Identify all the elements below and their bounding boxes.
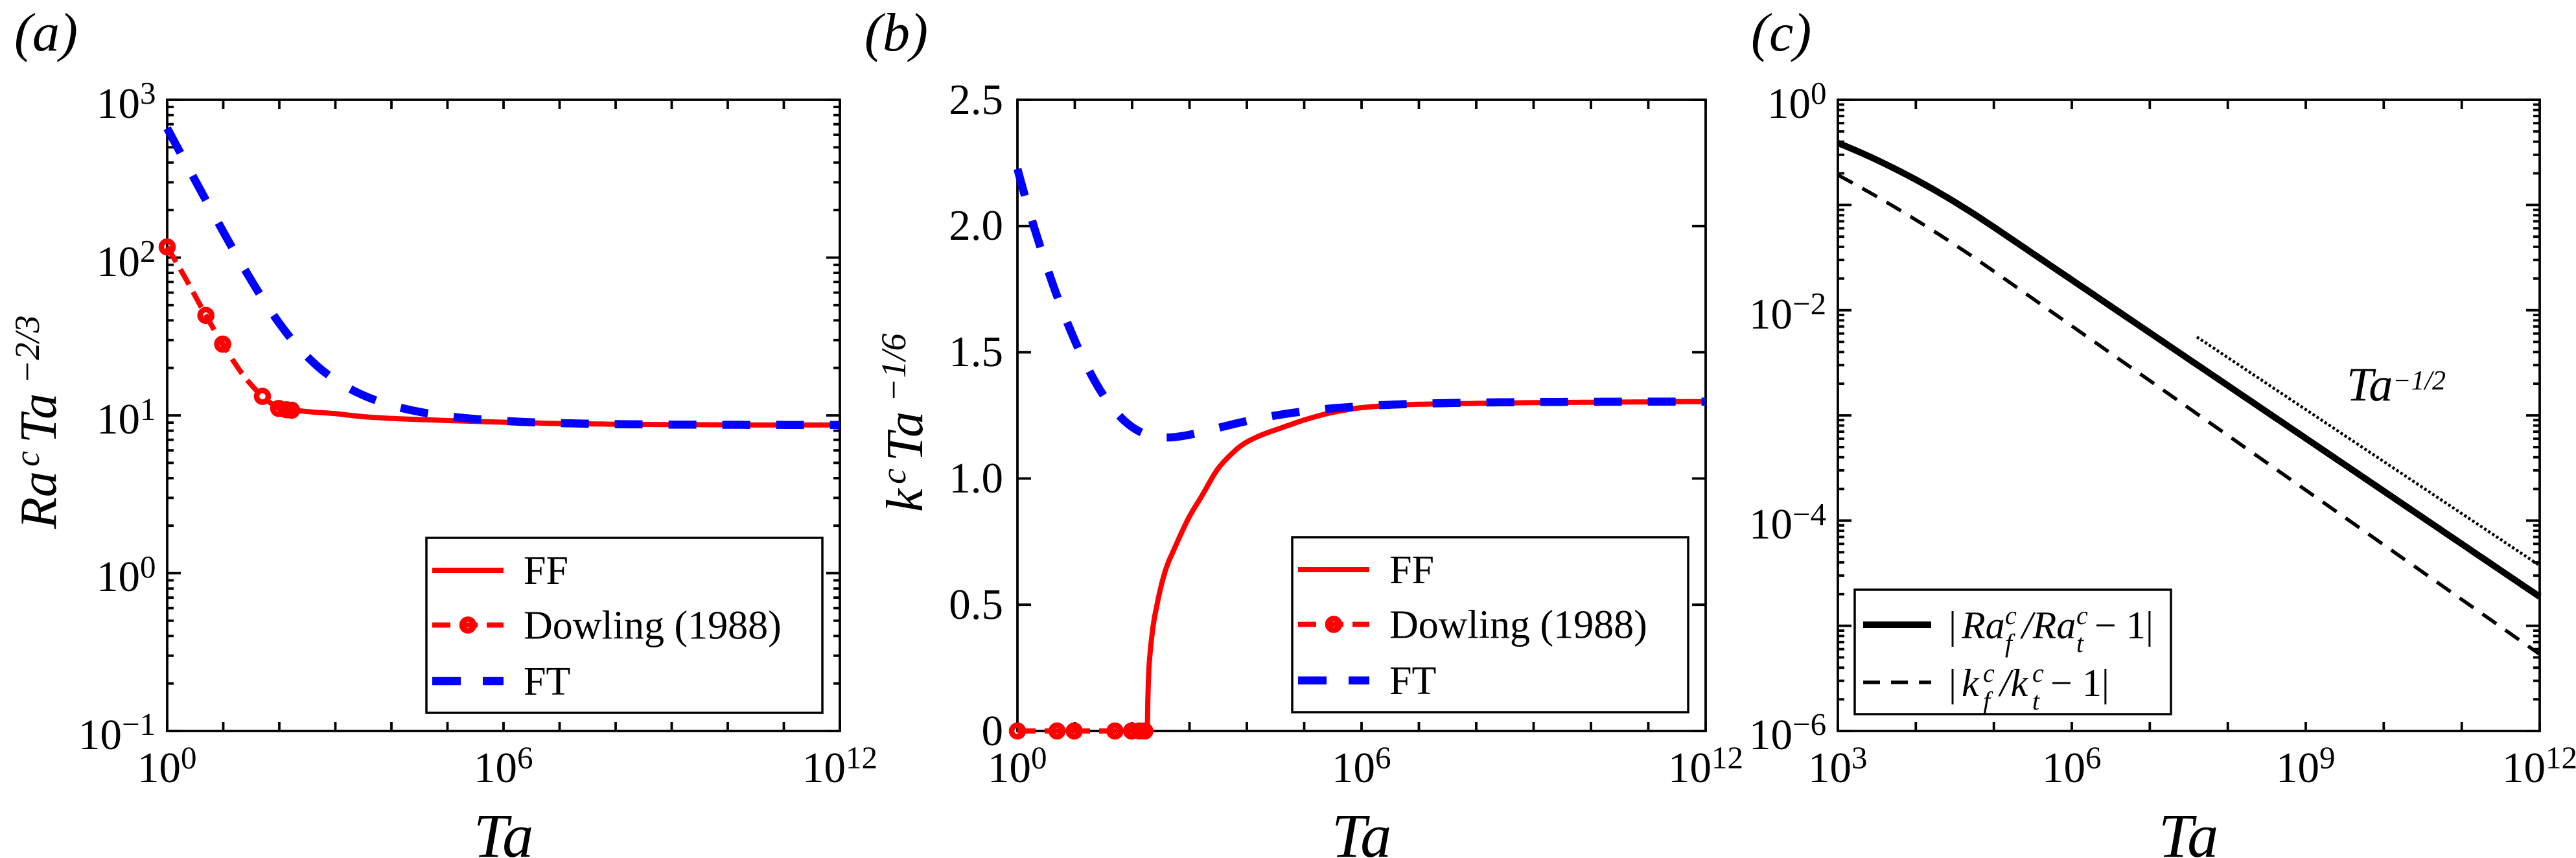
svg-text:10: 10 bbox=[802, 744, 846, 792]
svg-text:10: 10 bbox=[474, 744, 517, 792]
panel a curve Dowling red dashed bbox=[167, 247, 295, 410]
legend box panel a bbox=[426, 538, 822, 713]
svg-text:k: k bbox=[1962, 662, 1980, 704]
svg-text:10: 10 bbox=[97, 80, 140, 128]
svg-text:c: c bbox=[8, 451, 47, 467]
svg-text:2: 2 bbox=[140, 233, 156, 269]
legend box panel b bbox=[1292, 537, 1688, 712]
svg-text:10: 10 bbox=[97, 395, 140, 443]
svg-text:10: 10 bbox=[1749, 711, 1793, 759]
svg-text:0: 0 bbox=[181, 740, 197, 776]
svg-text:10: 10 bbox=[137, 744, 181, 792]
svg-text:12: 12 bbox=[1712, 740, 1743, 776]
panel c legend dashed entry bbox=[1863, 680, 1931, 684]
svg-text:FF: FF bbox=[524, 549, 568, 593]
svg-text:10: 10 bbox=[2502, 744, 2546, 792]
svg-text:10: 10 bbox=[1749, 290, 1793, 338]
svg-text:1: 1 bbox=[140, 391, 156, 427]
svg-text:− 1|: − 1| bbox=[2094, 604, 2153, 647]
svg-text:0: 0 bbox=[140, 549, 156, 585]
panel a curve FF red solid bbox=[296, 410, 839, 424]
svg-text:c: c bbox=[2005, 601, 2017, 630]
svg-text:c: c bbox=[2076, 601, 2088, 630]
svg-text:|: | bbox=[1949, 604, 1956, 647]
svg-text:FT: FT bbox=[1389, 659, 1436, 703]
panel b axes box bbox=[1017, 100, 1706, 731]
svg-text:−1: −1 bbox=[122, 706, 156, 742]
panel a axes box bbox=[167, 100, 840, 731]
svg-text:−1/2: −1/2 bbox=[2393, 366, 2446, 396]
svg-text:6: 6 bbox=[517, 740, 533, 776]
panel b Dowling circle markers bbox=[1012, 725, 1023, 737]
svg-text:Ta: Ta bbox=[474, 801, 534, 858]
svg-text:−1/6: −1/6 bbox=[874, 334, 913, 402]
svg-text:Ta: Ta bbox=[877, 412, 934, 461]
svg-text:−2: −2 bbox=[1793, 286, 1826, 321]
svg-text:c: c bbox=[1983, 658, 1995, 688]
svg-text:10: 10 bbox=[1767, 80, 1811, 128]
svg-text:9: 9 bbox=[2319, 740, 2336, 776]
svg-text:10: 10 bbox=[97, 238, 140, 286]
svg-text:FT: FT bbox=[524, 660, 570, 704]
svg-text:1.0: 1.0 bbox=[949, 454, 1003, 502]
panel b curve Dowling red dashed along zero bbox=[1017, 728, 1146, 734]
svg-text:(b): (b) bbox=[864, 3, 928, 63]
svg-text:12: 12 bbox=[846, 740, 877, 776]
panel a Dowling circle markers bbox=[161, 241, 173, 253]
panel a curve FT blue dashed bbox=[167, 128, 840, 425]
panel c legend solid entry bbox=[1863, 621, 1931, 628]
svg-text:Ta: Ta bbox=[10, 393, 67, 443]
panel c axes box bbox=[1838, 100, 2540, 731]
svg-text:−6: −6 bbox=[1793, 706, 1826, 742]
svg-text:2.5: 2.5 bbox=[949, 76, 1003, 124]
svg-text:12: 12 bbox=[2546, 740, 2576, 776]
legend a FF entry bbox=[432, 568, 504, 573]
svg-text:Ta: Ta bbox=[2347, 358, 2393, 412]
svg-text:/k: /k bbox=[1998, 662, 2029, 704]
panel c curve solid |Raf/Rat-1| bbox=[1838, 143, 2540, 597]
svg-text:c: c bbox=[874, 469, 913, 484]
svg-text:t: t bbox=[2076, 629, 2084, 658]
panel c legend box bbox=[1855, 590, 2171, 714]
svg-text:10: 10 bbox=[2276, 744, 2319, 792]
panel b ticks bbox=[1017, 100, 1706, 731]
svg-text:Dowling (1988): Dowling (1988) bbox=[524, 604, 782, 648]
svg-text:Ta: Ta bbox=[2159, 801, 2219, 858]
svg-text:/Ra: /Ra bbox=[2020, 604, 2076, 647]
panel a y axis label Ra^c Ta^-2/3 bbox=[8, 316, 67, 529]
svg-text:10: 10 bbox=[1808, 744, 1851, 792]
legend b FF entry bbox=[1298, 567, 1369, 572]
svg-text:0: 0 bbox=[1811, 75, 1827, 111]
svg-text:3: 3 bbox=[1851, 740, 1868, 776]
svg-text:10: 10 bbox=[2042, 744, 2085, 792]
panel c ticks bbox=[1838, 100, 2540, 731]
legend b FT entry bbox=[1298, 677, 1369, 685]
legend a Dowling entry bbox=[432, 623, 504, 628]
svg-text:− 1|: − 1| bbox=[2050, 662, 2109, 704]
panel b curve FT blue dashed bbox=[1017, 169, 1706, 437]
svg-text:t: t bbox=[2032, 686, 2040, 715]
svg-text:−4: −4 bbox=[1793, 496, 1826, 532]
svg-text:10: 10 bbox=[1668, 744, 1712, 792]
svg-text:1.5: 1.5 bbox=[949, 328, 1003, 376]
svg-text:−2/3: −2/3 bbox=[8, 316, 47, 384]
svg-text:(a): (a) bbox=[14, 3, 78, 63]
svg-text:Ta: Ta bbox=[1332, 801, 1392, 858]
svg-text:10: 10 bbox=[78, 711, 122, 759]
svg-text:10: 10 bbox=[97, 553, 140, 601]
svg-text:|: | bbox=[1949, 662, 1956, 704]
svg-text:6: 6 bbox=[2085, 740, 2102, 776]
svg-text:c: c bbox=[2032, 658, 2044, 688]
panel a ticks bbox=[167, 100, 840, 731]
svg-text:10: 10 bbox=[988, 744, 1031, 792]
svg-text:FF: FF bbox=[1389, 548, 1434, 592]
svg-text:(c): (c) bbox=[1751, 3, 1811, 63]
svg-text:10: 10 bbox=[1332, 744, 1375, 792]
svg-text:Ra: Ra bbox=[10, 471, 67, 529]
svg-text:0.5: 0.5 bbox=[949, 581, 1003, 629]
panel b curve FF red solid bbox=[1148, 402, 1706, 731]
svg-text:k: k bbox=[877, 488, 934, 512]
svg-text:Dowling (1988): Dowling (1988) bbox=[1389, 603, 1647, 647]
svg-text:10: 10 bbox=[1749, 500, 1793, 548]
panel c curve dashed |kf/kt-1| bbox=[1838, 175, 2540, 654]
svg-text:3: 3 bbox=[140, 75, 156, 111]
legend a FT entry bbox=[432, 677, 504, 686]
legend b Dowling entry bbox=[1298, 622, 1369, 627]
svg-text:0: 0 bbox=[1031, 740, 1047, 776]
svg-text:6: 6 bbox=[1375, 740, 1391, 776]
panel c dotted guide line slope -1/2 bbox=[2197, 337, 2539, 565]
svg-text:Ra: Ra bbox=[1961, 604, 2005, 647]
svg-text:2.0: 2.0 bbox=[949, 202, 1003, 249]
panel b y axis label k^c Ta^-1/6 bbox=[874, 334, 934, 512]
